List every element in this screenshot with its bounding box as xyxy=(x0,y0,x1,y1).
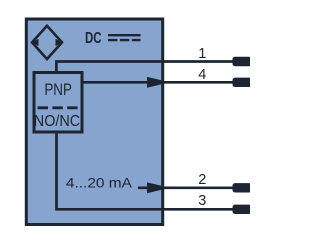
output stage box (PNP / NO-NC) xyxy=(34,73,82,133)
wire 4 (switching output, pin 4) xyxy=(82,81,233,84)
DC symbol solid bar xyxy=(108,34,141,36)
wire 3 (ground, pin 3) xyxy=(57,132,233,209)
terminal block 1 xyxy=(233,57,252,66)
svg-text:2: 2 xyxy=(198,172,206,188)
arrowhead on wire 4 xyxy=(147,77,170,88)
proximity sensor symbol (diamond) xyxy=(32,26,62,59)
svg-text:4: 4 xyxy=(198,67,206,83)
wire 1 (supply, pin 1) xyxy=(56,62,232,73)
svg-text:3: 3 xyxy=(198,193,206,209)
svg-text:DC: DC xyxy=(85,30,102,47)
sensor body (blue box) xyxy=(26,19,162,225)
DC symbol dashed bar xyxy=(108,39,141,41)
terminal block 3 xyxy=(233,205,252,214)
svg-text:NO/NC: NO/NC xyxy=(34,113,80,130)
left inner triangle of diamond xyxy=(32,39,39,46)
arrowhead on wire 2 xyxy=(147,182,170,193)
right inner triangle of diamond xyxy=(56,39,63,46)
dashed divider inside output box xyxy=(38,106,79,109)
svg-text:PNP: PNP xyxy=(44,81,72,99)
svg-text:4...20 mA: 4...20 mA xyxy=(66,175,133,191)
svg-text:1: 1 xyxy=(198,46,206,62)
wire 2 (analog output, pin 2) xyxy=(138,186,233,189)
terminal block 2 xyxy=(233,183,252,192)
terminal block 4 xyxy=(233,78,252,87)
